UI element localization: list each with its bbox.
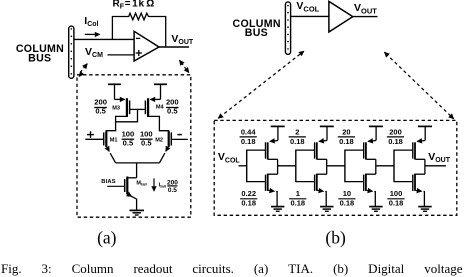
svg-text:M1: M1 (110, 138, 118, 144)
svg-text:M3: M3 (112, 106, 120, 112)
svg-text:VOUT: VOUT (428, 151, 451, 164)
svg-text:M2: M2 (155, 138, 163, 144)
svg-text:0.18: 0.18 (241, 199, 256, 208)
svg-text:2: 2 (295, 128, 299, 137)
svg-text:100: 100 (122, 130, 135, 139)
svg-text:100: 100 (140, 130, 153, 139)
svg-text:0.18: 0.18 (290, 199, 305, 208)
svg-text:0.5: 0.5 (141, 138, 152, 147)
svg-text:VOUT: VOUT (354, 2, 377, 16)
svg-text:0.5: 0.5 (168, 187, 177, 194)
svg-text:Itail: Itail (159, 182, 166, 188)
svg-text:200: 200 (94, 98, 107, 107)
svg-text:BUS: BUS (28, 53, 51, 65)
svg-text:0.22: 0.22 (241, 189, 256, 198)
svg-text:0.18: 0.18 (389, 199, 404, 208)
svg-text:200: 200 (166, 98, 179, 107)
svg-text:BUS: BUS (245, 27, 268, 39)
svg-text:100: 100 (390, 189, 403, 198)
svg-text:0.5: 0.5 (123, 138, 134, 147)
svg-text:VCM: VCM (85, 46, 103, 59)
svg-text:RF: RF (113, 0, 125, 10)
svg-text:Mtail: Mtail (136, 180, 146, 186)
svg-text:0.18: 0.18 (290, 137, 305, 146)
svg-text:1: 1 (296, 189, 300, 198)
svg-text:M4: M4 (156, 105, 165, 111)
svg-text:0.44: 0.44 (241, 128, 256, 137)
svg-text:1: 1 (132, 0, 138, 10)
svg-text:k: k (139, 0, 145, 10)
svg-text:VOUT: VOUT (171, 33, 194, 46)
svg-text:=: = (125, 0, 131, 10)
svg-text:ICol: ICol (84, 15, 98, 28)
svg-text:0.5: 0.5 (95, 107, 106, 116)
svg-text:0.18: 0.18 (340, 199, 355, 208)
svg-text:0.18: 0.18 (388, 137, 403, 146)
svg-text:20: 20 (342, 128, 350, 137)
svg-text:200: 200 (389, 128, 402, 137)
svg-text:10: 10 (343, 189, 351, 198)
svg-text:Ω: Ω (146, 0, 154, 10)
svg-text:BIAS: BIAS (101, 179, 116, 185)
svg-text:VCOL: VCOL (296, 0, 319, 14)
svg-text:VCOL: VCOL (218, 151, 241, 164)
svg-text:0.18: 0.18 (241, 137, 256, 146)
svg-text:0.5: 0.5 (167, 107, 178, 116)
svg-text:(a): (a) (97, 227, 117, 247)
svg-text:(b): (b) (325, 227, 346, 247)
svg-text:0.18: 0.18 (339, 137, 354, 146)
